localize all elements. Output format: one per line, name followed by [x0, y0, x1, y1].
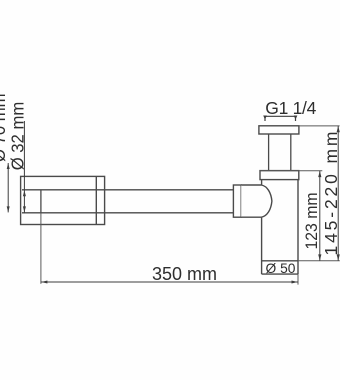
pipe end inside cup [40, 190, 42, 213]
bottle left wall upper stub [261, 179, 263, 184]
svg-text:Ø 32 mm: Ø 32 mm [7, 102, 27, 171]
bracket corner ticks [263, 116, 297, 120]
bottle body [262, 179, 298, 274]
svg-text:G1 1/4: G1 1/4 [265, 98, 316, 118]
left cut-off label Ø 70 mm [7, 163, 10, 212]
bottle left wall lower [261, 218, 263, 275]
svg-text:Ø 50: Ø 50 [266, 261, 296, 276]
cup/flange divider [95, 176, 97, 224]
dim line 145-220 mm [337, 126, 340, 261]
svg-text:350 mm: 350 mm [152, 264, 217, 284]
bottle cap [260, 171, 299, 180]
bottle bottom [262, 273, 298, 275]
horizontal inlet pipe [22, 190, 233, 213]
top flange [259, 126, 299, 134]
svg-text:145-220 mm: 145-220 mm [321, 132, 340, 256]
wall cup (decorative cover) [21, 176, 105, 224]
pipe bullet end into bottle [241, 185, 272, 217]
vertical outlet pipe [269, 134, 291, 171]
dim extension: band top to right [298, 260, 340, 262]
nut at bottle inlet [233, 185, 241, 217]
band top line [262, 260, 298, 262]
G1 1/4 thread bracket [265, 116, 296, 121]
dim extension: cap top to right [260, 170, 322, 172]
dim extension: flange top to right [299, 125, 340, 127]
Ø 32 dimension leader + arrows [23, 121, 26, 213]
dim line 123 mm [318, 171, 321, 261]
350 mm dimension [40, 213, 42, 284]
svg-text:123 mm: 123 mm [302, 193, 321, 250]
bottle right wall [297, 179, 299, 274]
svg-text:Ø 70 mm: Ø 70 mm [0, 94, 9, 163]
